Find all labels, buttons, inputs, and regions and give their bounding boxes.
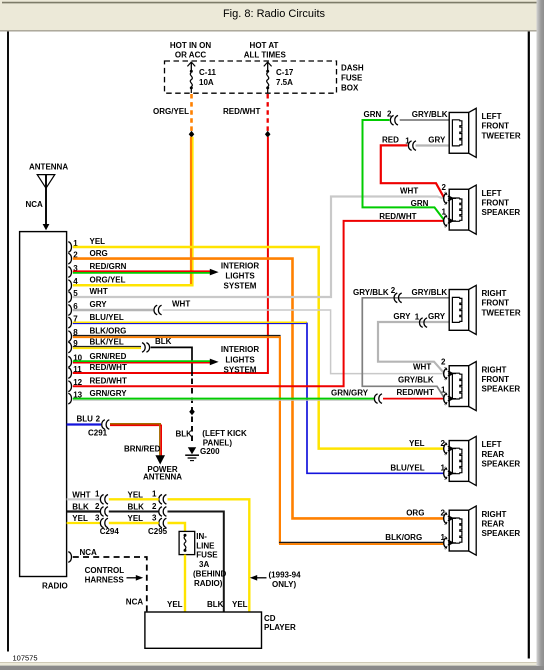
radio pin 13 bracket <box>68 393 71 404</box>
svg-text:(BEHIND: (BEHIND <box>193 570 227 579</box>
left front speaker pin2 connector <box>444 193 447 204</box>
svg-text:LINE: LINE <box>196 541 215 550</box>
antenna symbol <box>37 175 55 231</box>
label DASH FUSE BOX <box>341 63 364 92</box>
svg-text:INTERIOR: INTERIOR <box>221 345 259 354</box>
svg-text:LEFT: LEFT <box>482 189 502 198</box>
svg-text:ORG/YEL: ORG/YEL <box>90 275 126 284</box>
svg-text:2: 2 <box>96 414 101 423</box>
wire YEL below in-line fuse to CD player <box>184 555 186 612</box>
svg-text:ONLY): ONLY) <box>272 580 296 589</box>
label POWER ANTENNA <box>143 465 182 482</box>
svg-text:C-17: C-17 <box>276 68 294 77</box>
wire RED/GRN pin3 to interior lights <box>73 271 210 273</box>
wire RED/WHT vertical to radio pin 11 <box>73 137 268 373</box>
label INTERIOR LIGHTS SYSTEM (upper) <box>221 262 259 291</box>
left rear speaker <box>449 441 469 482</box>
wire GRY into left front tweeter <box>416 144 450 146</box>
svg-text:SYSTEM: SYSTEM <box>224 365 257 374</box>
wire GRN/RED pin10 to interior lights <box>73 361 210 363</box>
svg-text:GRN/GRY: GRN/GRY <box>331 388 369 397</box>
svg-text:NCA: NCA <box>26 200 44 209</box>
wire BLK row2 to CD player <box>109 512 224 613</box>
wire ORG pin2 to right rear speaker pin2 <box>73 259 444 519</box>
label HOT IN ON / OR ACC <box>170 41 212 60</box>
svg-text:7.5A: 7.5A <box>276 78 293 87</box>
svg-text:GRY: GRY <box>90 300 108 309</box>
junction node on RED/WHT <box>265 131 271 138</box>
svg-text:REAR: REAR <box>482 450 505 459</box>
svg-text:C295: C295 <box>148 527 168 536</box>
radio pin 7 bracket <box>68 317 71 328</box>
wire BLU/YEL pin7 to left rear speaker pin1 <box>73 322 444 473</box>
wire WHT pin5 to left front speaker pin2 <box>73 197 444 298</box>
CD player box <box>145 612 262 648</box>
svg-text:2: 2 <box>152 502 157 511</box>
svg-text:RED/WHT: RED/WHT <box>223 107 260 116</box>
svg-text:1: 1 <box>405 136 410 145</box>
svg-text:BLK: BLK <box>176 430 193 439</box>
svg-text:GRN: GRN <box>364 110 382 119</box>
svg-text:10A: 10A <box>199 78 214 87</box>
svg-text:SPEAKER: SPEAKER <box>482 385 521 394</box>
right rear speaker <box>449 510 469 551</box>
svg-text:SYSTEM: SYSTEM <box>224 282 257 291</box>
svg-text:HOT AT: HOT AT <box>250 41 279 50</box>
right rear speaker pin2 connector <box>444 513 447 524</box>
wire GRY/BLK tweeter pin2 to right front speaker pin1 <box>362 298 449 397</box>
svg-text:RADIO): RADIO) <box>194 579 223 588</box>
svg-text:YEL: YEL <box>90 237 106 246</box>
svg-text:Fig. 8: Radio Circuits: Fig. 8: Radio Circuits <box>223 8 326 20</box>
svg-text:RED: RED <box>382 136 399 145</box>
wire GRY pin6 stub <box>73 309 154 311</box>
svg-text:LEFT: LEFT <box>482 112 502 121</box>
arrow to interior lights system (pin10) <box>210 359 219 366</box>
svg-text:GRY/BLK: GRY/BLK <box>353 288 389 297</box>
svg-text:YEL: YEL <box>167 600 183 609</box>
svg-text:3A: 3A <box>199 560 209 569</box>
svg-text:2: 2 <box>95 502 100 511</box>
wire GRN tweeter pin2 to left front speaker pin1 <box>363 120 444 220</box>
svg-text:BLK/ORG: BLK/ORG <box>385 533 422 542</box>
svg-text:BLK: BLK <box>128 503 145 512</box>
junction node on BLK wire <box>189 408 195 415</box>
svg-text:BLU: BLU <box>77 414 94 423</box>
svg-text:11: 11 <box>73 365 82 374</box>
in-line fuse box <box>179 531 195 554</box>
junction node on ORG/YEL <box>189 131 195 138</box>
svg-text:HARNESS: HARNESS <box>85 576 125 585</box>
svg-text:YEL: YEL <box>409 439 425 448</box>
label YEL 3 after C294 <box>128 513 158 523</box>
radio pin 6 bracket <box>68 305 71 316</box>
dashed control harness wire <box>73 557 147 612</box>
label BLU 2 <box>77 414 101 423</box>
svg-text:DASH: DASH <box>341 63 364 72</box>
svg-text:2: 2 <box>441 439 446 448</box>
svg-text:WHT: WHT <box>72 491 90 500</box>
svg-text:YEL: YEL <box>232 600 248 609</box>
diagram left border <box>7 32 9 652</box>
connector C295 row 3 <box>159 518 162 528</box>
svg-text:GRY/BLK: GRY/BLK <box>398 375 434 384</box>
radio pin 8 bracket <box>68 331 71 342</box>
svg-text:WHT: WHT <box>172 300 190 309</box>
wire ORG/YEL vertical to radio pin 4 <box>73 137 194 286</box>
radio pin 4 bracket <box>68 280 71 291</box>
svg-text:C-11: C-11 <box>199 68 216 77</box>
svg-text:(1993-94: (1993-94 <box>269 570 302 579</box>
left front speaker <box>449 189 469 230</box>
wire YEL pin1 to left rear speaker pin2 <box>73 247 444 449</box>
svg-text:PANEL): PANEL) <box>203 439 233 448</box>
svg-text:BLK/YEL: BLK/YEL <box>90 338 124 347</box>
radio pin 5 bracket <box>68 292 71 303</box>
radio unit box <box>20 232 67 577</box>
svg-text:NCA: NCA <box>126 597 144 606</box>
svg-text:1: 1 <box>152 490 157 499</box>
label GRN 2 at left front tweeter <box>364 109 393 119</box>
right page shadow <box>537 0 544 666</box>
svg-text:ORG: ORG <box>90 249 108 258</box>
svg-text:ANTENNA: ANTENNA <box>29 162 68 171</box>
radio NCA pin bracket <box>68 552 71 563</box>
connector tweeter pin1 <box>408 141 411 151</box>
connector C294 row 2 <box>100 507 103 517</box>
in-line fuse symbol <box>184 534 187 552</box>
svg-text:SPEAKER: SPEAKER <box>482 208 521 217</box>
wire BLK/YEL pin9 stub <box>73 347 141 349</box>
svg-text:FRONT: FRONT <box>482 122 510 131</box>
svg-text:NCA: NCA <box>80 548 98 557</box>
svg-text:G200: G200 <box>200 447 220 456</box>
svg-text:BLK: BLK <box>207 600 224 609</box>
wire BRN/RED to power antenna <box>110 424 162 456</box>
svg-text:2: 2 <box>391 286 396 295</box>
wire GRY/BLK into left front tweeter <box>400 119 450 121</box>
label YEL 1 after C294 <box>128 490 158 500</box>
svg-text:FRONT: FRONT <box>482 299 510 308</box>
connector tweeter pin2 <box>390 115 393 125</box>
connector C295 row 1 <box>159 495 162 505</box>
svg-text:LEFT: LEFT <box>482 440 502 449</box>
bottom page edge <box>0 662 544 670</box>
fuse C-17 label <box>276 68 294 87</box>
svg-text:GRN/RED: GRN/RED <box>90 352 127 361</box>
svg-text:GRY: GRY <box>428 136 446 145</box>
wire ORG/YEL dashed from fuse C-11 <box>190 94 193 132</box>
fuse C-17 7.5A <box>264 62 272 93</box>
svg-text:TWEETER: TWEETER <box>482 308 521 317</box>
svg-text:107575: 107575 <box>13 654 38 663</box>
wire YEL row3 to in-line fuse <box>168 523 186 531</box>
svg-text:GRN/GRY: GRN/GRY <box>90 389 128 398</box>
dash fuse box (dashed rectangle) <box>165 61 337 93</box>
svg-text:RIGHT: RIGHT <box>482 510 507 519</box>
svg-text:GRY: GRY <box>428 312 446 321</box>
svg-text:BLU/YEL: BLU/YEL <box>90 313 124 322</box>
svg-text:C291: C291 <box>88 429 108 438</box>
svg-text:RED/WHT: RED/WHT <box>379 212 416 221</box>
label HOT AT / ALL TIMES <box>244 41 287 60</box>
radio pin 9 bracket <box>68 342 71 353</box>
wire RED/WHT to right front speaker pin1 <box>383 398 444 400</box>
arrow to control harness wire <box>127 575 144 581</box>
svg-text:1: 1 <box>441 533 446 542</box>
connector on pin6 wire <box>154 305 157 315</box>
svg-text:FRONT: FRONT <box>482 375 510 384</box>
wire WHT radio row 1 stub <box>67 498 100 500</box>
svg-text:SPEAKER: SPEAKER <box>482 459 521 468</box>
title bar <box>0 0 544 31</box>
svg-text:GRY/BLK: GRY/BLK <box>412 288 448 297</box>
svg-text:LIGHTS: LIGHTS <box>225 272 255 281</box>
radio pin 3 bracket <box>68 267 71 278</box>
svg-text:ORG/YEL: ORG/YEL <box>153 107 189 116</box>
left front speaker pin1 connector <box>444 215 447 226</box>
wire WHT pin6 to right front speaker pin2 <box>163 310 444 374</box>
connector C294 row 3 <box>100 518 103 528</box>
svg-text:PLAYER: PLAYER <box>264 623 296 632</box>
svg-text:WHT: WHT <box>413 362 431 371</box>
label WHT 1 <box>72 490 100 500</box>
svg-text:BOX: BOX <box>341 84 359 93</box>
svg-text:BLU/YEL: BLU/YEL <box>390 464 424 473</box>
label GRY 1 at right front tweeter <box>393 312 419 321</box>
wire YEL row1 middle segment <box>109 498 159 500</box>
svg-text:GRY: GRY <box>393 312 411 321</box>
1993-94 only callout <box>250 570 301 588</box>
svg-text:HOT IN ON: HOT IN ON <box>170 41 212 50</box>
svg-text:3: 3 <box>95 513 100 522</box>
title bar top edge line <box>2 2 541 4</box>
right front tweeter <box>449 290 469 331</box>
label LEFT KICK PANEL <box>202 429 247 447</box>
svg-text:ANTENNA: ANTENNA <box>143 473 182 482</box>
wire RED/WHT pin12 to left front speaker pin1 <box>73 221 444 386</box>
label BLK 2 <box>72 502 100 512</box>
svg-text:3: 3 <box>152 513 157 522</box>
svg-text:RED/WHT: RED/WHT <box>397 388 434 397</box>
title bar separator <box>0 30 537 32</box>
connector C294 row 1 <box>100 495 103 505</box>
label CONTROL HARNESS <box>85 566 125 585</box>
svg-text:C294: C294 <box>100 527 120 536</box>
radio pin 10 bracket <box>68 356 71 367</box>
radio pin 11 bracket <box>68 368 71 379</box>
svg-text:REAR: REAR <box>482 519 505 528</box>
left front tweeter <box>449 112 469 153</box>
wire RED/WHT dashed from fuse C-17 <box>267 94 269 132</box>
arrow to power antenna <box>155 455 165 464</box>
svg-text:4: 4 <box>73 277 78 286</box>
label IN-LINE FUSE 3A (BEHIND RADIO) <box>193 532 227 588</box>
svg-text:GRN: GRN <box>411 199 429 208</box>
svg-text:RED/WHT: RED/WHT <box>90 363 127 372</box>
svg-text:(LEFT KICK: (LEFT KICK <box>202 429 247 438</box>
right front speaker <box>449 366 469 407</box>
svg-text:RIGHT: RIGHT <box>482 365 507 374</box>
connector on pin9 wire <box>142 343 145 353</box>
svg-text:2: 2 <box>442 183 447 192</box>
svg-text:RED/WHT: RED/WHT <box>90 376 127 385</box>
radio pin 2 bracket <box>68 253 71 264</box>
wire BLK radio row 2 stub <box>67 510 100 512</box>
svg-text:1: 1 <box>95 490 100 499</box>
wire YEL radio row 3 stub <box>67 522 100 524</box>
label BLK 2 after C294 <box>128 502 158 512</box>
wire BLU stub <box>67 423 101 425</box>
diagram right border <box>528 32 530 659</box>
right front speaker pin2 connector <box>444 368 447 379</box>
radio pin 12 bracket <box>68 381 71 392</box>
svg-text:ORG: ORG <box>406 509 424 518</box>
arrow to interior lights system (pin3) <box>210 269 219 276</box>
left rear speaker pin1 connector <box>444 468 447 479</box>
svg-text:LIGHTS: LIGHTS <box>225 355 255 364</box>
right rear speaker pin1 connector <box>444 537 447 548</box>
wire RED tweeter pin1 to left front speaker pin2 <box>381 145 444 197</box>
svg-text:CONTROL: CONTROL <box>85 566 125 575</box>
label CD PLAYER <box>264 614 296 632</box>
label GRY/BLK 2 at right front tweeter <box>353 286 396 297</box>
svg-text:FUSE: FUSE <box>341 73 363 82</box>
svg-text:GRY/BLK: GRY/BLK <box>412 110 448 119</box>
svg-text:WHT: WHT <box>90 287 108 296</box>
connector on pin13 wire <box>374 394 377 404</box>
right front speaker pin1 connector <box>444 393 447 404</box>
radio pin 1 bracket <box>68 242 71 253</box>
label RED 1 at left front tweeter <box>382 136 410 146</box>
svg-text:OR ACC: OR ACC <box>175 51 206 60</box>
svg-text:FUSE: FUSE <box>196 551 218 560</box>
connector C295 row 2 <box>159 507 162 517</box>
svg-text:FRONT: FRONT <box>482 198 510 207</box>
wire BLK/ORG pin8 to right rear speaker pin1 <box>73 336 444 544</box>
connector right front tweeter pin1 <box>420 318 423 328</box>
wire YEL row1 to CD player <box>168 499 250 612</box>
wire BLK dashed to G200 <box>191 379 193 444</box>
ground G200 symbol <box>185 447 199 460</box>
svg-text:BRN/RED: BRN/RED <box>124 444 161 453</box>
svg-text:IN-: IN- <box>196 532 207 541</box>
svg-text:2: 2 <box>441 509 446 518</box>
wire GRY tweeter pin1 to right front speaker pin2 <box>378 322 449 373</box>
svg-text:RADIO: RADIO <box>42 582 68 591</box>
svg-text:CD: CD <box>264 614 276 623</box>
connector right front tweeter pin2 <box>394 293 397 303</box>
svg-text:WHT: WHT <box>400 186 418 195</box>
connector C291 <box>102 420 105 430</box>
wire BLK pin9 to ground <box>151 347 192 376</box>
svg-text:ALL TIMES: ALL TIMES <box>244 51 287 60</box>
svg-text:INTERIOR: INTERIOR <box>221 262 259 271</box>
svg-text:SPEAKER: SPEAKER <box>482 529 521 538</box>
svg-text:TWEETER: TWEETER <box>482 131 521 140</box>
svg-text:BLK: BLK <box>155 337 172 346</box>
left rear speaker pin2 connector <box>444 443 447 454</box>
svg-text:2: 2 <box>441 358 446 367</box>
svg-text:BLK: BLK <box>72 503 89 512</box>
fuse C-11 label <box>199 68 216 87</box>
svg-text:1: 1 <box>415 312 420 321</box>
svg-text:RIGHT: RIGHT <box>482 289 507 298</box>
svg-text:BLK/ORG: BLK/ORG <box>90 326 127 335</box>
svg-text:YEL: YEL <box>72 514 88 523</box>
label INTERIOR LIGHTS SYSTEM (lower) <box>221 345 259 374</box>
svg-text:RED/GRN: RED/GRN <box>90 262 127 271</box>
wire YEL row3 middle segment <box>109 522 159 524</box>
svg-text:1: 1 <box>441 464 446 473</box>
fuse C-11 10A <box>187 62 195 93</box>
wire GRN/GRY pin13 stub <box>73 399 374 401</box>
label YEL 3 <box>72 513 100 523</box>
